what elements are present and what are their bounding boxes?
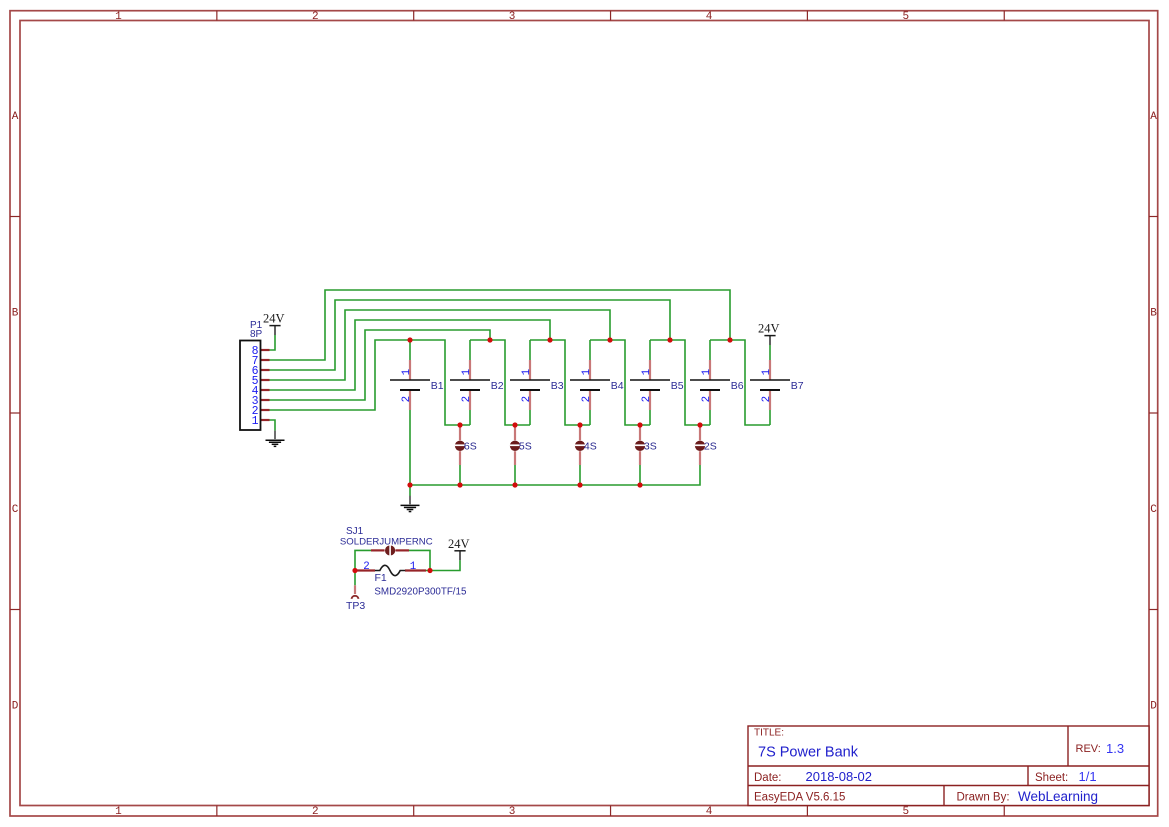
svg-text:1: 1 bbox=[252, 415, 259, 428]
svg-text:C: C bbox=[12, 504, 19, 516]
svg-text:Drawn By:: Drawn By: bbox=[957, 792, 1010, 804]
svg-text:2: 2 bbox=[312, 11, 319, 23]
svg-text:A: A bbox=[12, 111, 19, 123]
svg-text:5: 5 bbox=[902, 806, 909, 818]
svg-text:2: 2 bbox=[761, 396, 773, 402]
svg-text:1: 1 bbox=[701, 369, 713, 375]
svg-text:1: 1 bbox=[401, 369, 413, 375]
svg-text:4: 4 bbox=[706, 806, 713, 818]
svg-text:7S Power Bank: 7S Power Bank bbox=[758, 745, 859, 761]
svg-text:B4: B4 bbox=[611, 380, 624, 392]
svg-text:TITLE:: TITLE: bbox=[754, 728, 784, 739]
svg-text:1: 1 bbox=[461, 369, 473, 375]
svg-text:D: D bbox=[12, 701, 19, 713]
svg-text:1: 1 bbox=[115, 11, 122, 23]
svg-text:B7: B7 bbox=[791, 380, 804, 392]
svg-text:24V: 24V bbox=[263, 312, 285, 326]
svg-text:2: 2 bbox=[461, 396, 473, 402]
svg-text:2: 2 bbox=[581, 396, 593, 402]
svg-text:2: 2 bbox=[641, 396, 653, 402]
svg-text:B1: B1 bbox=[431, 380, 444, 392]
svg-text:SMD2920P300TF/15: SMD2920P300TF/15 bbox=[374, 587, 467, 598]
svg-text:24V: 24V bbox=[758, 322, 780, 336]
svg-text:6S: 6S bbox=[464, 441, 477, 453]
svg-text:TP3: TP3 bbox=[346, 600, 365, 612]
svg-text:24V: 24V bbox=[448, 537, 470, 551]
svg-text:2: 2 bbox=[363, 561, 369, 573]
svg-text:3: 3 bbox=[509, 11, 516, 23]
svg-text:2: 2 bbox=[312, 806, 319, 818]
svg-text:3S: 3S bbox=[644, 441, 657, 453]
svg-text:1: 1 bbox=[410, 561, 416, 573]
svg-text:REV:: REV: bbox=[1076, 743, 1101, 755]
svg-text:3: 3 bbox=[509, 806, 516, 818]
svg-text:5S: 5S bbox=[519, 441, 532, 453]
svg-text:SOLDERJUMPERNC: SOLDERJUMPERNC bbox=[340, 536, 433, 547]
svg-text:2018-08-02: 2018-08-02 bbox=[806, 769, 873, 784]
svg-text:B3: B3 bbox=[551, 380, 564, 392]
svg-text:1: 1 bbox=[115, 806, 122, 818]
svg-text:F1: F1 bbox=[375, 572, 387, 584]
svg-text:WebLearning: WebLearning bbox=[1018, 789, 1098, 804]
svg-text:B: B bbox=[1150, 308, 1157, 320]
svg-text:1: 1 bbox=[581, 369, 593, 375]
svg-text:4S: 4S bbox=[584, 441, 597, 453]
svg-text:C: C bbox=[1150, 504, 1157, 516]
svg-text:Date:: Date: bbox=[754, 772, 782, 784]
svg-text:1/1: 1/1 bbox=[1079, 769, 1097, 784]
svg-text:1: 1 bbox=[641, 369, 653, 375]
svg-text:B6: B6 bbox=[731, 380, 744, 392]
svg-text:4: 4 bbox=[706, 11, 713, 23]
svg-text:2: 2 bbox=[401, 396, 413, 402]
svg-text:Sheet:: Sheet: bbox=[1035, 772, 1068, 784]
svg-text:2S: 2S bbox=[704, 441, 717, 453]
svg-text:B: B bbox=[12, 308, 19, 320]
svg-text:EasyEDA V5.6.15: EasyEDA V5.6.15 bbox=[754, 792, 845, 804]
svg-text:B2: B2 bbox=[491, 380, 504, 392]
svg-text:B5: B5 bbox=[671, 380, 684, 392]
svg-text:1: 1 bbox=[521, 369, 533, 375]
svg-text:1: 1 bbox=[761, 369, 773, 375]
svg-text:5: 5 bbox=[902, 11, 909, 23]
svg-text:2: 2 bbox=[521, 396, 533, 402]
svg-text:D: D bbox=[1150, 701, 1157, 713]
svg-text:8P: 8P bbox=[250, 329, 263, 340]
svg-text:A: A bbox=[1150, 111, 1157, 123]
svg-text:2: 2 bbox=[701, 396, 713, 402]
svg-text:1.3: 1.3 bbox=[1106, 741, 1124, 756]
